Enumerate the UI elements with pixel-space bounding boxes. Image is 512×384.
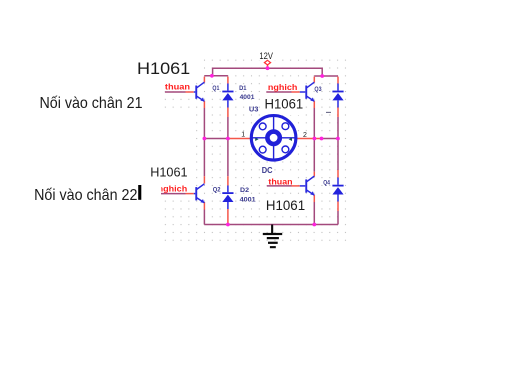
wires: red pin segments bbox=[186, 65, 339, 225]
text cursor bbox=[138, 185, 141, 200]
pin D3 anode bbox=[337, 108, 339, 118]
pin D1 anode bbox=[227, 108, 229, 118]
transistor Q2 bbox=[194, 184, 205, 203]
svg-text:H1061: H1061 bbox=[265, 97, 304, 113]
svg-text:H1061: H1061 bbox=[137, 60, 190, 78]
pin Q4 collector bbox=[313, 172, 315, 177]
transistor Q3 bbox=[300, 82, 315, 101]
pin Q2 emitter bbox=[203, 202, 205, 210]
pin Q3 emitter bbox=[313, 101, 315, 108]
pin D4 cathode bbox=[337, 170, 339, 178]
wire 12V stem bbox=[267, 65, 269, 69]
svg-text:1: 1 bbox=[241, 132, 245, 139]
wire left D column bbox=[227, 117, 229, 176]
white label backgrounds bbox=[131, 51, 200, 81]
junction dots bbox=[203, 66, 340, 226]
pin Q1 emitter bbox=[203, 101, 205, 108]
pin Q3 base bbox=[292, 91, 300, 93]
svg-text:12V: 12V bbox=[259, 51, 273, 61]
white box of text "Noi vao chan 22" cutting the label bbox=[28, 178, 161, 203]
grid dot area bbox=[162, 57, 352, 243]
pin Q3 collector bbox=[313, 77, 315, 83]
wire top-left T bbox=[204, 75, 228, 77]
pin D3 cathode bbox=[337, 77, 339, 84]
ground bbox=[263, 225, 282, 249]
svg-text:Nối vào chân 21: Nối vào chân 21 bbox=[40, 95, 143, 112]
pin D1 cathode bbox=[227, 77, 229, 84]
transistor Q4 bbox=[300, 176, 315, 195]
pin Q1 base bbox=[186, 91, 194, 93]
pin D4 anode bbox=[337, 202, 339, 212]
stray mark artifact bbox=[326, 111, 331, 113]
diode D3 bbox=[332, 91, 343, 101]
wire right D column lower bbox=[337, 211, 339, 225]
wire motor node 2 bbox=[322, 138, 338, 140]
wire top-right T bbox=[314, 75, 338, 77]
svg-text:thuan: thuan bbox=[268, 177, 292, 186]
svg-text:Q1: Q1 bbox=[212, 85, 219, 92]
svg-text:nghich: nghich bbox=[268, 83, 298, 92]
svg-text:D2: D2 bbox=[240, 187, 249, 194]
svg-text:H1061: H1061 bbox=[150, 164, 187, 179]
svg-text:Q4: Q4 bbox=[323, 179, 330, 186]
svg-text:Q2: Q2 bbox=[213, 187, 221, 194]
wire motor pin 1 bbox=[228, 138, 251, 140]
svg-text:D1: D1 bbox=[239, 85, 247, 92]
pin Q4 emitter bbox=[313, 195, 315, 202]
svg-text:4001: 4001 bbox=[240, 196, 256, 203]
svg-text:4001: 4001 bbox=[240, 94, 255, 101]
pin Q2 collector bbox=[203, 176, 205, 183]
pin Q1 collector bbox=[203, 77, 205, 83]
svg-text:Q3: Q3 bbox=[314, 86, 321, 93]
pin D2 anode bbox=[227, 209, 229, 224]
wire ground rail bbox=[204, 224, 338, 226]
diode D2 bbox=[222, 192, 233, 202]
svg-text:DC: DC bbox=[262, 165, 273, 175]
wire base Q3 bbox=[266, 91, 291, 93]
svg-text:H1061: H1061 bbox=[266, 198, 305, 214]
pin Q2 base bbox=[186, 193, 194, 195]
wire base Q1 bbox=[165, 91, 186, 93]
pin Q4 base bbox=[292, 185, 300, 187]
pin D2 cathode bbox=[227, 176, 229, 185]
wire base Q2 bbox=[161, 193, 186, 195]
wire left Q column lower bbox=[203, 210, 205, 225]
diode D4 bbox=[332, 185, 343, 195]
wire motor node 1 bbox=[204, 138, 228, 140]
wire left Q column bbox=[203, 108, 205, 176]
wire motor pin 2 bbox=[296, 138, 321, 140]
wire base Q4 bbox=[267, 185, 292, 187]
motor U3 bbox=[251, 115, 296, 160]
svg-text:Nối vào chân 22: Nối vào chân 22 bbox=[34, 187, 137, 204]
wire +12V top rail bbox=[213, 68, 323, 76]
svg-text:U3: U3 bbox=[249, 104, 259, 113]
wire right Q column lower bbox=[313, 202, 315, 225]
svg-text:2: 2 bbox=[303, 132, 307, 139]
diode D1 bbox=[222, 91, 233, 101]
svg-text:thuan: thuan bbox=[165, 82, 190, 91]
wire right Q column bbox=[313, 108, 315, 172]
wire right D column bbox=[337, 117, 339, 170]
power symbol 12V bbox=[264, 60, 270, 65]
transistor Q1 bbox=[194, 82, 205, 101]
wires: maroon nets bbox=[161, 68, 338, 224]
svg-text:nghich: nghich bbox=[158, 185, 188, 194]
